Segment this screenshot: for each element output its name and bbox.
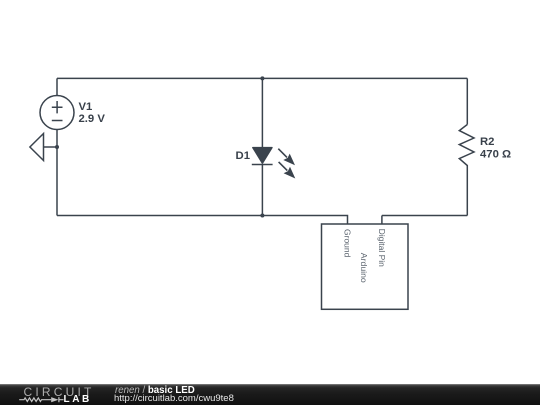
svg-text:Digital Pin: Digital Pin	[377, 229, 387, 268]
svg-text:V1: V1	[79, 101, 93, 113]
svg-text:R2: R2	[480, 136, 494, 148]
svg-text:D1: D1	[236, 150, 250, 162]
svg-text:2.9 V: 2.9 V	[79, 113, 106, 125]
svg-text:Ground: Ground	[343, 229, 353, 258]
svg-text:470 Ω: 470 Ω	[480, 148, 511, 160]
svg-text:Arduino: Arduino	[359, 253, 369, 283]
